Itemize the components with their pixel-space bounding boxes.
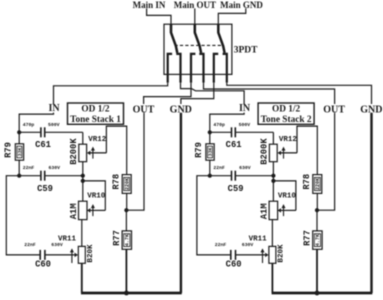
resistor R77 4.7K (stack 1) (122, 210, 131, 293)
node GND (stack 2) (360, 104, 382, 115)
label 3PDT (234, 45, 258, 55)
switch pole 3 lever (218, 24, 224, 53)
svg-text:VR10: VR10 (278, 192, 297, 200)
svg-text:500V: 500V (48, 122, 60, 128)
switch pole 1 right contact (176, 54, 180, 83)
label C59 (stack 1) (37, 184, 53, 194)
potentiometer VR12 B200K (stack 2) (269, 132, 277, 201)
wire pole3 right contact to Tone Stack 2 GND (227, 83, 372, 104)
wiper of VR11 (stack 2) (236, 248, 269, 263)
svg-text:630V: 630V (239, 165, 251, 171)
svg-text:OD 1/2: OD 1/2 (81, 105, 110, 115)
potentiometer VR10 A1M (stack 2) (269, 201, 278, 246)
wire IN to input node (stack 1) (19, 113, 53, 133)
svg-text:C60: C60 (35, 260, 51, 270)
label VR10 (stack 1) (87, 192, 106, 200)
capacitor C61 (stack 2) (210, 127, 274, 137)
wire pole2 left contact to Tone Stack 1 OUT (144, 83, 191, 104)
svg-text:4.7K: 4.7K (124, 234, 130, 246)
svg-text:220K: 220K (315, 178, 321, 190)
svg-text:630V: 630V (51, 242, 63, 248)
label C60 (stack 1) (35, 260, 51, 270)
net label Main OUT (174, 0, 216, 10)
value label B200K for VR12 (stack 2) (260, 138, 270, 165)
svg-text:33K: 33K (17, 148, 23, 157)
svg-text:470p: 470p (23, 122, 35, 128)
label C61 (stack 1) (35, 140, 51, 150)
svg-text:220K: 220K (124, 178, 130, 190)
label C59 (stack 2) (228, 184, 244, 194)
switch pole 3 right contact (223, 54, 227, 83)
junction mid node (stack 2) (208, 174, 212, 178)
value label B20K for VR11 (stack 2) (277, 244, 285, 263)
wiper of VR12 (stack 1) (87, 147, 107, 159)
label VR11 (stack 1) (58, 236, 77, 244)
svg-text:VR12: VR12 (88, 136, 107, 144)
resistor R78 220K (stack 1) (122, 175, 131, 211)
capacitor C59 (stack 1) (19, 171, 83, 181)
wiper of VR12 (stack 2) (278, 147, 298, 159)
junction C59 right (stack 2) (271, 174, 275, 178)
label R79 (stack 2) (194, 142, 204, 158)
label VR12 (stack 2) (279, 136, 298, 144)
svg-text:R78: R78 (112, 174, 122, 190)
capacitor C60 (stack 1) (40, 250, 45, 260)
value label B20K for VR11 (stack 1) (87, 244, 95, 263)
junction R78/R77/OUT (stack 2) (315, 208, 319, 212)
value label 22nF 630V for C59 (stack 2) (213, 165, 250, 171)
svg-text:Tone Stack 2: Tone Stack 2 (261, 115, 312, 125)
junction VR10 strap (stack 2) (271, 179, 275, 183)
svg-text:33K: 33K (208, 148, 214, 157)
value label B200K for VR12 (stack 1) (69, 138, 79, 165)
svg-text:22nF: 22nF (215, 242, 227, 248)
svg-text:A1M: A1M (260, 203, 270, 219)
potentiometer VR12 B200K (stack 1) (79, 132, 87, 201)
svg-text:B20K: B20K (277, 244, 285, 263)
svg-text:R77: R77 (112, 230, 122, 246)
switch pole 1 left contact (168, 54, 172, 83)
wire pole1 right contact to Tone Stack 2 IN (181, 83, 245, 104)
node GND (stack 1) (170, 104, 192, 115)
switch pole 1 lever (171, 24, 177, 53)
value label 22nF 630V for C60 (stack 1) (24, 242, 63, 248)
ground bus (stack 1) (81, 292, 182, 295)
wire pole1 left contact to Tone Stack 1 IN (54, 83, 168, 104)
label VR11 (stack 2) (249, 236, 268, 244)
wire Main GND to switch pole 3 (218, 8, 246, 24)
title box OD 1/2 Tone Stack 1 (68, 103, 124, 125)
junction VR10 strap (stack 1) (81, 179, 85, 183)
capacitor C60 (stack 2) (231, 250, 236, 260)
value label 470p 500V for C61 (stack 2) (213, 122, 250, 128)
wire Main OUT to switch pole 2 (194, 8, 196, 24)
capacitor C59 (stack 2) (210, 171, 274, 181)
capacitor C61 (stack 1) (19, 127, 83, 137)
wire GND column (stack 2) (370, 113, 372, 293)
wire OUT column (stack 1) (126, 113, 144, 210)
svg-text:A1M: A1M (69, 203, 79, 219)
svg-text:C59: C59 (37, 184, 53, 194)
node OUT (stack 1) (133, 104, 155, 115)
switch 3PDT body (164, 24, 232, 74)
label R77 (stack 2) (302, 230, 312, 246)
svg-text:B200K: B200K (260, 138, 270, 165)
wire pole2 right contact to Tone Stack 2 OUT (204, 83, 335, 104)
svg-text:VR10: VR10 (87, 192, 106, 200)
net label Main GND (220, 0, 263, 10)
label R78 (stack 1) (112, 174, 122, 190)
svg-text:VR12: VR12 (279, 136, 298, 144)
wire IN to input node (stack 2) (210, 113, 244, 133)
svg-text:630V: 630V (49, 165, 61, 171)
potentiometer VR11 B20K (stack 2) (269, 246, 276, 293)
svg-text:R78: R78 (302, 174, 312, 190)
value label 22nF 630V for C59 (stack 1) (23, 165, 60, 171)
label VR12 (stack 1) (88, 136, 107, 144)
svg-text:22nF: 22nF (23, 165, 35, 171)
switch pole 2 left contact (191, 54, 195, 83)
resistor R78 220K (stack 2) (313, 175, 322, 211)
resistor R77 4.7K (stack 2) (313, 210, 322, 293)
node IN (stack 1) (48, 103, 60, 114)
value label 22nF 630V for C60 (stack 2) (215, 242, 254, 248)
svg-text:22nF: 22nF (24, 242, 36, 248)
svg-text:Tone Stack 1: Tone Stack 1 (70, 115, 121, 125)
label C60 (stack 2) (226, 260, 242, 270)
junction input node (stack 2) (208, 130, 212, 134)
label R78 (stack 2) (302, 174, 312, 190)
wire pole3 left contact to Tone Stack 1 GND (181, 83, 214, 104)
svg-text:OD 1/2: OD 1/2 (272, 105, 301, 115)
svg-text:C60: C60 (226, 260, 242, 270)
wiper of VR11 (stack 1) (45, 248, 78, 263)
svg-text:Main GND: Main GND (220, 0, 263, 10)
junction ground bus (stack 2) (315, 291, 320, 296)
value label A1M for VR10 (stack 1) (69, 203, 79, 219)
junction R78/R77/OUT (stack 1) (124, 208, 128, 212)
switch pole 2 right contact (199, 54, 203, 83)
potentiometer VR11 B20K (stack 1) (78, 246, 85, 293)
junction C59 right (stack 1) (81, 174, 85, 178)
svg-text:B200K: B200K (69, 138, 79, 165)
label R77 (stack 1) (112, 230, 122, 246)
svg-text:IN: IN (48, 103, 60, 114)
ground bus (stack 2) (272, 292, 373, 295)
switch pole 2 lever (195, 24, 201, 53)
svg-text:R77: R77 (302, 230, 312, 246)
svg-text:500V: 500V (239, 122, 251, 128)
wire left rail to C60 (stack 1) (6, 176, 40, 255)
label C61 (stack 2) (226, 140, 242, 150)
label R79 (stack 1) (4, 142, 14, 158)
junction mid node (stack 1) (17, 174, 21, 178)
value label A1M for VR10 (stack 2) (260, 203, 270, 219)
svg-text:Main OUT: Main OUT (174, 0, 216, 10)
svg-text:IN: IN (239, 103, 251, 114)
wiper of VR10 (stack 2) (278, 204, 296, 216)
title box OD 1/2 Tone Stack 2 (258, 103, 314, 125)
wire left rail to C60 (stack 2) (197, 176, 231, 255)
svg-text:C59: C59 (228, 184, 244, 194)
node OUT (stack 2) (323, 104, 345, 115)
resistor R79 33K (stack 2) (206, 132, 214, 175)
svg-text:Main IN: Main IN (133, 0, 166, 10)
junction ground bus (stack 1) (124, 291, 129, 296)
potentiometer VR10 A1M (stack 1) (79, 201, 88, 246)
wire VR10 top strap to wiper (stack 2) (273, 181, 296, 211)
switch pole 3 left contact (214, 54, 218, 83)
svg-text:4.7K: 4.7K (315, 234, 321, 246)
label VR10 (stack 2) (278, 192, 297, 200)
svg-text:630V: 630V (242, 242, 254, 248)
svg-text:470p: 470p (213, 122, 225, 128)
wire VR12 wiper to R78 top (stack 1) (106, 126, 126, 175)
svg-text:C61: C61 (226, 140, 242, 150)
wire VR10 top strap to wiper (stack 1) (83, 181, 106, 211)
net label Main IN (133, 0, 166, 10)
wire VR12 wiper to R78 top (stack 2) (297, 126, 317, 175)
wire OUT column (stack 2) (317, 113, 335, 210)
node IN (stack 2) (239, 103, 251, 114)
resistor R79 33K (stack 1) (15, 132, 23, 175)
switch mechanical link (dashed) (175, 44, 222, 46)
wiper of VR10 (stack 1) (87, 204, 105, 216)
svg-text:3PDT: 3PDT (234, 45, 258, 55)
value label 470p 500V for C61 (stack 1) (23, 122, 60, 128)
svg-text:R79: R79 (4, 142, 14, 158)
wire GND column (stack 1) (180, 113, 182, 293)
svg-text:C61: C61 (35, 140, 51, 150)
svg-text:R79: R79 (194, 142, 204, 158)
svg-text:B20K: B20K (87, 244, 95, 263)
wire Main IN to switch pole 1 (147, 8, 171, 24)
junction input node (stack 1) (17, 130, 21, 134)
svg-text:22nF: 22nF (213, 165, 225, 171)
